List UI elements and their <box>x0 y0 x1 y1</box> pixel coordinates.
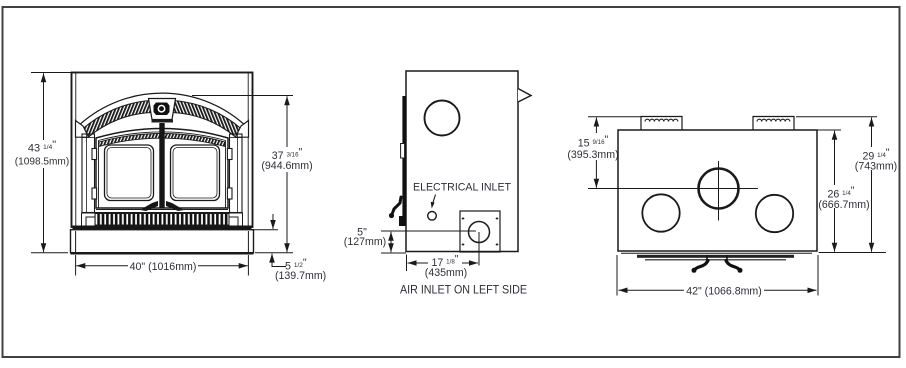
dimension 43 1/4 (1098.5mm) left height <box>31 73 71 253</box>
air inlet circle <box>469 222 490 243</box>
dimension 15 9/16 (395.3mm) <box>588 117 641 188</box>
dimension 42 (1066.8mm) <box>617 255 818 296</box>
center mullion <box>159 123 164 208</box>
side body <box>406 71 518 252</box>
strip notch detail <box>401 144 405 159</box>
air inlet centerlines <box>381 230 476 232</box>
handle hook right <box>726 255 743 273</box>
hinge top right <box>227 149 232 160</box>
left knockout circle <box>642 194 679 231</box>
svg-text:(435mm): (435mm) <box>425 267 467 279</box>
dimension 5 (127mm) <box>381 232 406 253</box>
svg-text:15 9/16": 15 9/16" <box>578 134 609 150</box>
svg-text:(395.3mm): (395.3mm) <box>567 149 618 161</box>
pilaster left <box>82 134 95 213</box>
svg-text:(139.7mm): (139.7mm) <box>275 270 326 282</box>
svg-text:(666.7mm): (666.7mm) <box>818 199 869 211</box>
svg-text:(944.6mm): (944.6mm) <box>261 160 312 172</box>
front lip <box>621 253 812 260</box>
svg-text:42" (1066.8mm): 42" (1066.8mm) <box>686 285 762 297</box>
standoff tab left <box>641 117 682 131</box>
arch corbel left <box>76 121 89 138</box>
standoff tab right <box>753 117 794 131</box>
dimension 5 1/2 (139.7mm) base height <box>251 214 293 267</box>
dimension 40 (1016mm) width <box>76 255 249 276</box>
pilaster right <box>230 134 243 213</box>
dimension 29 1/4 (743mm) <box>796 117 877 252</box>
front face strip <box>402 96 406 226</box>
medallion <box>154 103 170 116</box>
hinge top left <box>92 149 97 160</box>
arch hatched band right <box>172 101 243 138</box>
right knockout circle <box>756 195 793 232</box>
handle hook left <box>692 255 709 273</box>
svg-text:(1098.5mm): (1098.5mm) <box>15 157 69 168</box>
svg-text:43 1/4": 43 1/4" <box>28 139 56 155</box>
grille band <box>82 213 243 226</box>
svg-text:ELECTRICAL INLET: ELECTRICAL INLET <box>413 182 511 194</box>
svg-text:40" (1016mm): 40" (1016mm) <box>130 261 197 273</box>
handle right <box>166 201 184 211</box>
svg-text:AIR INLET ON LEFT SIDE: AIR INLET ON LEFT SIDE <box>400 283 527 297</box>
hinge bottom left <box>92 188 97 199</box>
dimension 37 3/16 (944.6mm) <box>192 96 293 253</box>
strip latch detail <box>389 197 406 226</box>
electrical inlet circle <box>428 212 437 221</box>
door assembly outer frame <box>96 128 228 208</box>
flue centerlines <box>588 188 758 190</box>
flag bracket <box>518 89 531 103</box>
svg-text:(127mm): (127mm) <box>344 236 386 248</box>
flue circle <box>699 169 739 209</box>
dimension 17 1/8 (435mm) <box>407 255 479 272</box>
electrical inlet leader arrow <box>431 195 436 209</box>
keystone shadow <box>152 120 174 123</box>
bottom rail band <box>73 226 252 230</box>
svg-text:(743mm): (743mm) <box>855 161 897 173</box>
door sill <box>96 209 228 211</box>
hinge bottom right <box>227 188 232 199</box>
hearth base <box>71 230 254 253</box>
top view body <box>618 130 817 251</box>
right door glass <box>171 145 220 201</box>
dimension 26 1/4 (666.7mm) <box>817 130 886 253</box>
front view outer body <box>72 73 253 228</box>
door top hatched rail <box>99 134 225 147</box>
side flue circle <box>425 101 460 136</box>
arch corbel right <box>236 121 249 138</box>
arch hatched band left <box>82 101 153 138</box>
handle left <box>140 201 158 211</box>
air inlet box <box>460 211 500 252</box>
arch outer curve <box>76 93 249 128</box>
left door glass <box>105 145 154 201</box>
keystone panel <box>149 99 176 120</box>
